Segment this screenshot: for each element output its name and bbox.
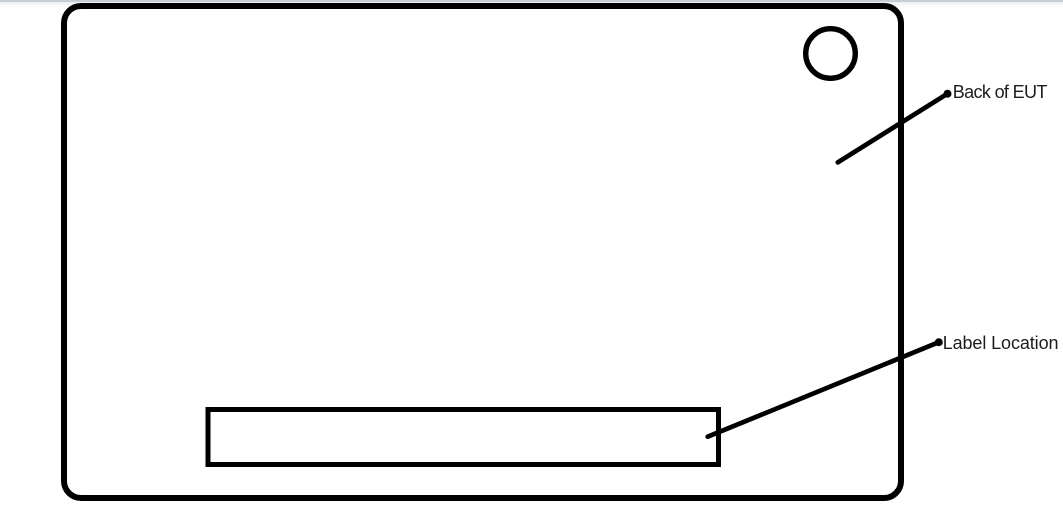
svg-text:Label Location: Label Location (943, 333, 1059, 353)
svg-text:Back of EUT: Back of EUT (953, 82, 1048, 102)
